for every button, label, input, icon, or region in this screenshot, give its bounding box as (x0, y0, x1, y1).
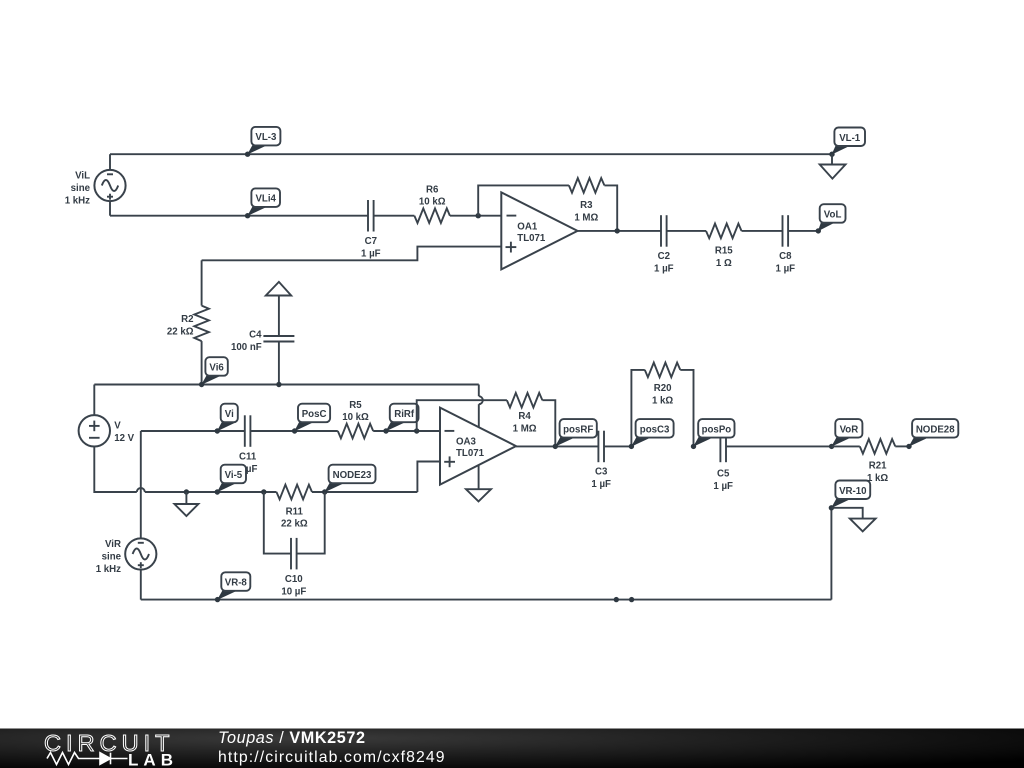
ground below OA3 (466, 489, 491, 501)
svg-text:OA3: OA3 (456, 437, 477, 448)
junction C4 bottom on rail (276, 382, 281, 387)
svg-text:10 µF: 10 µF (281, 587, 306, 598)
wire V source bottom lead (94, 447, 137, 493)
resistor R11 22 kOhm (277, 485, 313, 530)
wire Vi row rail (141, 430, 245, 432)
power supply symbol above C4 (266, 282, 291, 296)
svg-text:PosC: PosC (302, 409, 327, 420)
svg-text:1 µF: 1 µF (713, 481, 733, 492)
svg-text:posRF: posRF (563, 424, 593, 435)
junction OA3 feedback (414, 428, 419, 433)
wire R2 to Vi6 node (201, 341, 203, 384)
svg-text:Toupas / VMK2572: Toupas / VMK2572 (218, 729, 366, 747)
capacitor C8 1 uF (776, 215, 796, 274)
svg-text:posPo: posPo (702, 424, 732, 435)
wire R20 loop left (631, 370, 644, 447)
wire feedback up from junction (478, 185, 569, 215)
wire OA1 plus input path (202, 247, 502, 261)
svg-text:VoR: VoR (840, 424, 859, 435)
wire OA3 V- pin (478, 465, 480, 489)
svg-text:ViL: ViL (75, 171, 90, 182)
svg-text:RiRf: RiRf (394, 409, 415, 420)
node VoL (816, 204, 846, 233)
wire OA1 output to C2 (578, 230, 662, 232)
wire ViL bottom lead (109, 201, 111, 216)
svg-text:VR-10: VR-10 (839, 486, 866, 497)
svg-text:C5: C5 (717, 469, 730, 480)
svg-text:1 µF: 1 µF (776, 264, 796, 275)
svg-text:C8: C8 (779, 251, 792, 262)
svg-text:VL-1: VL-1 (839, 133, 861, 144)
wire OA3 output (516, 445, 598, 447)
wire VR-10 to ground (831, 508, 862, 519)
node VLi4 (245, 188, 280, 218)
wire OA3 V+ pin with hop (479, 385, 483, 428)
wire R20 loop right (680, 370, 693, 447)
svg-text:ViR: ViR (105, 539, 121, 550)
wire top rail VL-3 to VL-1 (110, 153, 832, 155)
node VL-3 (245, 127, 280, 157)
svg-text:R3: R3 (580, 200, 593, 211)
node posC3 (629, 419, 674, 449)
wire C10 left branch (264, 492, 291, 554)
svg-text:sine: sine (71, 183, 91, 194)
label ViL sine 1 kHz (65, 171, 91, 207)
svg-text:22 kΩ: 22 kΩ (167, 326, 194, 337)
node VR-10 (829, 481, 871, 511)
wire C3 to posC3 (604, 445, 631, 447)
svg-text:1 kHz: 1 kHz (65, 195, 90, 206)
svg-text:1 kΩ: 1 kΩ (652, 396, 673, 407)
wire down to R2 (201, 260, 203, 305)
svg-text:Vi-5: Vi-5 (225, 470, 243, 481)
svg-text:1 MΩ: 1 MΩ (574, 212, 598, 223)
wire hop over ViR vertical (137, 488, 145, 492)
resistor R21 1 kOhm (860, 439, 896, 484)
svg-text:NODE28: NODE28 (916, 424, 955, 435)
wire R4 down to output (542, 400, 555, 446)
node PosC (292, 404, 330, 434)
resistor R5 10 kOhm (338, 400, 373, 439)
wire ground rail to R11 (145, 491, 277, 493)
wire C8 to VoL (788, 230, 818, 232)
voltage source ViL (sine 1 kHz) (94, 170, 125, 201)
node VL-1 (829, 128, 865, 157)
junction dot A on bottom rail (614, 597, 619, 602)
wire C10 right branch (297, 492, 325, 554)
CircuitLab logo zigzag and diode (47, 753, 128, 765)
svg-text:TL071: TL071 (456, 448, 485, 459)
resistor R2 22 kOhm (167, 306, 209, 342)
op-amp OA3 TL071 (440, 408, 516, 485)
ground at VL-1 (820, 154, 846, 178)
node Vi6 (199, 357, 228, 387)
svg-text:1 Ω: 1 Ω (716, 258, 732, 269)
wire R21 to NODE28 (895, 445, 909, 447)
node posRF (553, 419, 597, 449)
node NODE23 (322, 465, 376, 495)
junction R11 left / C10 left (261, 489, 266, 494)
svg-text:Vi: Vi (225, 409, 234, 420)
svg-text:posC3: posC3 (640, 424, 670, 435)
node RiRf (383, 404, 418, 434)
node Vi-5 (215, 465, 246, 495)
wire R15 to C8 (742, 230, 783, 232)
ground at VR-10 (850, 519, 876, 532)
svg-text:http://circuitlab.com/cxf8249: http://circuitlab.com/cxf8249 (218, 749, 446, 766)
svg-text:C3: C3 (595, 467, 608, 478)
junction ground stub (184, 489, 189, 494)
svg-text:VoL: VoL (824, 210, 842, 221)
capacitor C5 1 uF (713, 431, 733, 492)
svg-text:22 kΩ: 22 kΩ (281, 519, 308, 530)
node NODE28 (906, 419, 958, 449)
svg-text:1 µF: 1 µF (591, 479, 611, 490)
wire R5 to OA3 minus input (373, 430, 440, 432)
svg-text:R4: R4 (518, 411, 531, 422)
voltage source ViR (sine 1 kHz) (125, 538, 156, 569)
svg-text:1 kΩ: 1 kΩ (867, 473, 888, 484)
svg-text:OA1: OA1 (517, 221, 538, 232)
wire ViL top lead (109, 154, 111, 170)
svg-text:10 kΩ: 10 kΩ (342, 412, 369, 423)
svg-text:sine: sine (102, 551, 122, 562)
label ViR sine 1 kHz (96, 539, 122, 575)
wire ViR bottom lead (140, 570, 142, 600)
wire C5 to VoR (726, 445, 832, 447)
wire C2 to R15 (667, 230, 706, 232)
svg-text:C10: C10 (285, 574, 303, 585)
node posPo (691, 419, 735, 449)
resistor R15 1 Ohm (706, 224, 742, 269)
wire R6 to op-amp OA1 minus input (450, 215, 501, 217)
svg-text:R11: R11 (286, 506, 304, 517)
svg-text:C4: C4 (249, 330, 262, 341)
wire OA3 feedback up and over (417, 400, 507, 431)
wire middle rail to OA3 plus input (417, 462, 440, 493)
wire top rail of lower stage (94, 384, 479, 386)
svg-text:Vi6: Vi6 (209, 363, 224, 374)
node VoR (829, 419, 863, 449)
resistor R4 1 MOhm (507, 393, 543, 435)
capacitor C2 1 uF (654, 215, 674, 274)
wire C7 to R6 (374, 215, 415, 217)
capacitor C3 1 uF (591, 431, 611, 490)
svg-text:1 kHz: 1 kHz (96, 564, 121, 575)
resistor R20 1 kOhm (645, 363, 681, 407)
capacitor C10 10 uF (281, 538, 306, 598)
wire bottom rail up to VR-10 (830, 508, 832, 600)
svg-text:C2: C2 (658, 251, 670, 262)
svg-text:1 µF: 1 µF (361, 248, 381, 259)
junction dot B on bottom rail (629, 597, 634, 602)
svg-text:TL071: TL071 (517, 233, 546, 244)
svg-text:1 µF: 1 µF (654, 264, 674, 275)
svg-text:12 V: 12 V (114, 433, 134, 444)
svg-text:C11: C11 (239, 451, 257, 462)
svg-text:R15: R15 (715, 245, 733, 256)
op-amp OA1 TL071 (501, 192, 577, 269)
svg-text:R20: R20 (654, 383, 672, 394)
wire Vi row left end down to ViR (140, 431, 142, 538)
junction at OA1 minus / feedback (476, 213, 481, 218)
svg-text:C7: C7 (365, 236, 377, 247)
svg-text:LAB: LAB (128, 751, 173, 768)
wire power to C4 (278, 296, 280, 337)
svg-text:1 MΩ: 1 MΩ (513, 424, 537, 435)
svg-text:R6: R6 (426, 185, 439, 196)
capacitor C11 1 uF (238, 415, 258, 475)
footer bar (0, 729, 1024, 768)
svg-text:VL-3: VL-3 (255, 132, 277, 143)
resistor R6 10 kOhm (414, 185, 450, 224)
svg-text:R21: R21 (869, 461, 887, 472)
wire C11 to R5 (250, 430, 337, 432)
svg-text:V: V (114, 421, 121, 432)
svg-text:VR-8: VR-8 (225, 578, 248, 589)
svg-text:VLi4: VLi4 (255, 194, 276, 205)
svg-text:R5: R5 (349, 400, 362, 411)
ground symbol on middle rail (174, 492, 198, 516)
capacitor C7 (361, 200, 381, 259)
wire R3 to output (604, 185, 617, 231)
wire ViL to C7 (110, 215, 368, 217)
wire C4 to rail (278, 342, 280, 385)
svg-text:NODE23: NODE23 (333, 470, 372, 481)
capacitor C4 100 nF (231, 330, 294, 354)
resistor R3 1 MOhm (569, 178, 605, 223)
svg-text:100 nF: 100 nF (231, 342, 262, 353)
wire V source top lead to rail (93, 385, 95, 416)
node VR-8 (215, 572, 251, 602)
wire R11 to NODE23 (312, 491, 417, 493)
node Vi (215, 404, 238, 434)
wire bottom ground rail (141, 599, 832, 601)
voltage source V 12 V (79, 415, 135, 446)
junction OA1 output / R3 (615, 228, 620, 233)
wire VoR to R21 (832, 445, 860, 447)
svg-text:10 kΩ: 10 kΩ (419, 197, 446, 208)
svg-text:R2: R2 (181, 314, 193, 325)
